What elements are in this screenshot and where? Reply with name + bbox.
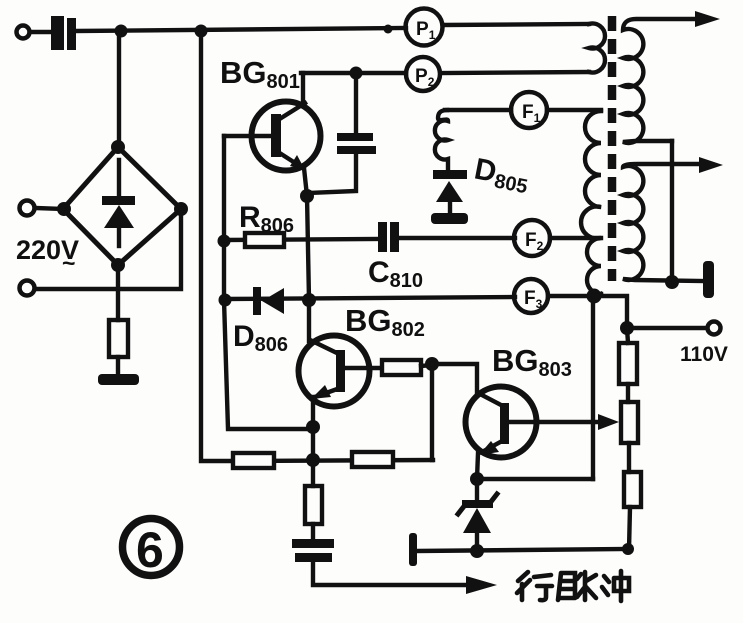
- ground bar right: [703, 261, 714, 298]
- wire pot to R bottom: [627, 443, 631, 472]
- node bridge top: [111, 140, 125, 154]
- node top-a: [115, 25, 128, 38]
- ground bar bottom left: [409, 533, 417, 566]
- wire cap bottom: [309, 154, 356, 193]
- wire BG801 collector riser: [301, 73, 305, 105]
- arrow BG803 base: [598, 414, 619, 430]
- svg-text:BG803: BG803: [492, 343, 572, 381]
- node F3: [587, 289, 602, 304]
- transistor BG803: [466, 387, 603, 458]
- resistor R806: [245, 233, 284, 247]
- node top-b: [195, 25, 208, 38]
- node bridge bottom: [111, 258, 125, 272]
- capacitor C810: [378, 222, 399, 252]
- terminal 110V: [708, 322, 721, 335]
- resistor bridge bottom: [109, 265, 128, 377]
- winding D805 branch: [435, 110, 448, 170]
- svg-text:P1: P1: [416, 19, 436, 42]
- wire base vertical: [224, 136, 313, 429]
- terminal 220V lower: [20, 281, 35, 296]
- F2 terminal circle: [514, 220, 550, 256]
- node bias: [425, 357, 439, 371]
- wire P1 to winding: [443, 24, 589, 25]
- winding primary top: [589, 24, 605, 73]
- diode bridge inner: [102, 160, 135, 246]
- transistor BG802: [299, 336, 383, 407]
- wire F3 to 110V: [594, 296, 627, 328]
- terminal input top: [17, 26, 30, 39]
- node bridge right: [174, 202, 188, 216]
- svg-text:BG802: BG802: [345, 303, 425, 341]
- wire BG803 emitter: [477, 453, 478, 479]
- wire: [30, 30, 52, 34]
- wire R bottom down: [629, 507, 630, 550]
- wire F1 left: [445, 108, 511, 112]
- node top-c: [384, 25, 393, 34]
- node emitter-a: [306, 420, 320, 434]
- wire D806 rail: [225, 297, 515, 299]
- wire winding to F3 node: [594, 294, 601, 296]
- node emitter BG803: [470, 472, 484, 486]
- svg-text:D806: D806: [233, 320, 288, 356]
- wire BG802 emitter: [311, 397, 315, 460]
- wire long left vertical: [201, 31, 233, 461]
- node bottom right corner: [622, 543, 634, 555]
- wire to bridge left: [35, 208, 63, 209]
- wire 110V: [627, 326, 707, 330]
- ground bridge: [98, 374, 139, 385]
- bridge rectifier: [63, 147, 181, 265]
- svg-text:C810: C810: [368, 256, 423, 292]
- wire bridge top riser: [117, 31, 121, 150]
- svg-text:BG801: BG801: [220, 55, 300, 93]
- wire top rail: [76, 28, 406, 31]
- wire bias to BG803 collector: [432, 364, 477, 392]
- label pulse chinese: [517, 571, 629, 601]
- winding secondary bottom: [623, 164, 703, 281]
- node tap: [665, 275, 679, 289]
- resistor lower-left: [233, 453, 274, 468]
- arrow secondary top: [695, 11, 720, 27]
- wire emitter vertical: [307, 196, 309, 341]
- transistor BG801: [224, 102, 321, 197]
- wire base res to node: [421, 365, 433, 366]
- zener diode: [458, 479, 497, 551]
- F1 terminal circle: [511, 92, 547, 128]
- resistor BG802 base: [382, 360, 421, 375]
- diode D806: [253, 287, 284, 315]
- resistor lower-right: [352, 452, 393, 467]
- node zener bottom: [470, 544, 484, 558]
- F3 terminal circle: [514, 279, 548, 313]
- svg-text:110V: 110V: [680, 343, 728, 366]
- resistor emitter chain: [305, 460, 322, 540]
- node base-D806: [219, 294, 232, 307]
- wire pulse out: [313, 562, 472, 585]
- node D806 right: [302, 293, 316, 307]
- diode D805: [433, 170, 467, 213]
- capacitor input: [51, 16, 76, 50]
- arrow secondary mid: [699, 157, 723, 173]
- wire F2 right: [550, 236, 601, 240]
- terminal 220V upper: [20, 201, 35, 216]
- wire emitter to F3 line: [477, 477, 593, 481]
- potentiometer: [621, 402, 638, 443]
- svg-text:F2: F2: [525, 230, 544, 253]
- svg-text:F3: F3: [524, 288, 543, 311]
- resistor chain right: R top: [619, 328, 637, 402]
- winding secondary top: [623, 19, 700, 143]
- wire mid tap down: [670, 141, 674, 282]
- core dashed: [608, 16, 617, 281]
- capacitor C801: [337, 133, 376, 154]
- node emitter-b: [306, 453, 320, 467]
- svg-text:6: 6: [136, 522, 164, 578]
- node emitter BG801: [300, 189, 314, 203]
- wire F1 right: [547, 108, 601, 112]
- wire P2 left: [301, 71, 406, 75]
- svg-text:P2: P2: [415, 66, 435, 89]
- wire cap riser: [354, 73, 358, 133]
- svg-text:F1: F1: [522, 102, 541, 125]
- wire C810 to F2: [399, 236, 515, 240]
- svg-text:R806: R806: [239, 201, 294, 237]
- capacitor emitter: [292, 539, 334, 562]
- arrow pulse out: [466, 576, 497, 594]
- node base-R806: [218, 235, 231, 248]
- wire bias down: [430, 364, 434, 460]
- wire bottom rail: [417, 549, 628, 551]
- ground D805: [431, 213, 468, 224]
- wire R806 rail: [224, 239, 379, 240]
- wire F3 riser down: [591, 296, 595, 479]
- P1 terminal circle: [406, 9, 443, 46]
- node bridge left: [57, 202, 71, 216]
- node collector rail: [350, 67, 363, 80]
- wire P2 rail: [441, 72, 589, 73]
- svg-text:D805: D805: [471, 152, 532, 198]
- P2 terminal circle: [406, 57, 440, 91]
- winding primary main: [581, 111, 601, 294]
- wire lower rail: [233, 460, 433, 461]
- node 110V: [620, 321, 634, 335]
- figure number 6: [123, 519, 180, 579]
- resistor chain right: R bottom: [624, 472, 641, 507]
- svg-text:~: ~: [62, 250, 75, 276]
- wire lower AC: [35, 209, 181, 289]
- wire F3 right: [548, 294, 594, 298]
